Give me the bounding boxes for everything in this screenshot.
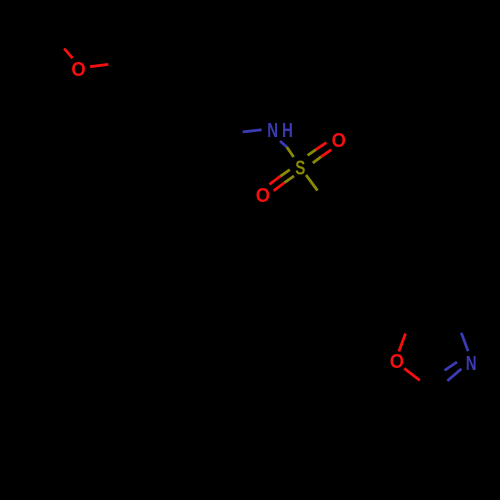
- svg-text:O: O: [390, 350, 404, 373]
- svg-text:N: N: [466, 352, 477, 375]
- svg-text:O: O: [71, 58, 85, 81]
- svg-text:O: O: [332, 129, 346, 152]
- svg-text:O: O: [256, 184, 270, 207]
- svg-text:H: H: [282, 119, 293, 142]
- svg-text:N: N: [267, 119, 278, 142]
- svg-text:S: S: [295, 157, 305, 180]
